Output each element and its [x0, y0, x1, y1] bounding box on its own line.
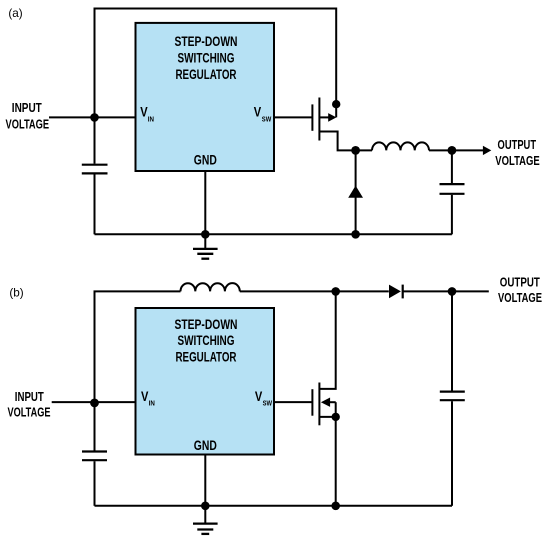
node Q2 source on bottom rail (b) [331, 502, 340, 511]
svg-text:SW: SW [263, 398, 272, 407]
capacitor C2 output cap (a) [440, 150, 465, 234]
svg-text:IN: IN [149, 398, 155, 407]
node Q2 drain junction on rail (b) [331, 287, 340, 296]
pin label VIN (a) [140, 105, 154, 124]
svg-text:SW: SW [262, 114, 271, 123]
svg-text:V: V [254, 105, 261, 120]
node GND junction (a) [201, 230, 210, 239]
regulator U1 box (a) [136, 23, 275, 171]
svg-text:(a): (a) [8, 6, 22, 20]
node Q2 source junction (b) [332, 413, 340, 421]
label INPUT VOLTAGE (b) [8, 389, 51, 420]
svg-text:GND: GND [194, 152, 217, 167]
wire bottom rail (b) [95, 505, 453, 507]
wire input (a): INPUT VOLTAGE to VIN pin [49, 116, 136, 118]
svg-text:GND: GND [194, 438, 217, 453]
svg-text:STEP-DOWN: STEP-DOWN [175, 317, 238, 332]
svg-text:OUTPUT: OUTPUT [498, 137, 537, 152]
svg-text:(b): (b) [9, 285, 23, 299]
svg-text:SWITCHING: SWITCHING [178, 51, 235, 66]
wire top rail left segment (b): input node up, across to inductor [95, 291, 181, 402]
capacitor C1 input cap (a) [82, 117, 108, 234]
svg-text:V: V [141, 389, 148, 404]
transistor Q1 PMOS (a) [312, 98, 355, 151]
wire input (b) [52, 401, 136, 403]
svg-text:VOLTAGE: VOLTAGE [8, 405, 51, 420]
label OUTPUT VOLTAGE (a) [495, 137, 540, 168]
node diode-anode junction on bottom rail (a) [351, 230, 360, 239]
node GND junction (b) [201, 502, 210, 511]
node input junction (b) [90, 399, 99, 408]
svg-text:INPUT: INPUT [12, 100, 42, 115]
pin label VSW (a) [254, 105, 271, 124]
wire bottom rail (a) [95, 233, 452, 235]
wire GND pin stem (a) [204, 171, 206, 234]
node switch node SW (a) [351, 146, 360, 155]
diode D1 freewheel (a) [348, 150, 363, 234]
regulator U2 box (b) [136, 308, 275, 455]
wire top rail mid segment (b): inductor to diode [240, 290, 389, 292]
wire GND pin stem (b) [204, 455, 206, 506]
node input junction (a) [90, 113, 99, 122]
node output junction (a) [448, 146, 457, 155]
svg-text:IN: IN [148, 114, 154, 123]
svg-text:VOLTAGE: VOLTAGE [498, 290, 542, 305]
label INPUT VOLTAGE (a) [6, 100, 50, 131]
wire top rail (a): input node up, across, down to Q1 drain [95, 9, 337, 118]
capacitor C3 input cap (b) [82, 402, 107, 506]
svg-text:V: V [255, 389, 262, 404]
transistor Q2 NMOS (b) [312, 291, 335, 425]
svg-text:REGULATOR: REGULATOR [176, 67, 237, 82]
svg-text:V: V [140, 105, 147, 120]
label (a) [8, 6, 22, 20]
svg-text:SWITCHING: SWITCHING [178, 333, 235, 348]
wire top rail right segment (b): diode to output [403, 290, 489, 292]
wire VSW to gate (b) [274, 401, 312, 403]
svg-text:OUTPUT: OUTPUT [500, 274, 540, 289]
svg-text:INPUT: INPUT [15, 389, 44, 404]
wire Q2 source to bottom rail (b) [335, 417, 337, 506]
svg-text:STEP-DOWN: STEP-DOWN [175, 34, 238, 49]
pin label VIN (b) [141, 389, 155, 407]
wire VSW to gate (a) [274, 116, 312, 118]
node Q1 drain dot (a) [332, 100, 340, 108]
node output junction (b) [448, 287, 457, 296]
pin label GND (b) [194, 438, 217, 453]
inductor L2 (b) [181, 283, 240, 291]
pin label VSW (b) [255, 389, 272, 407]
pin label GND (a) [194, 152, 217, 167]
inductor L1 (a) [356, 142, 452, 150]
wire output with arrow (a) [452, 146, 491, 155]
diode D2 boost (b) [389, 285, 403, 299]
svg-text:VOLTAGE: VOLTAGE [495, 153, 540, 168]
svg-text:REGULATOR: REGULATOR [176, 350, 237, 365]
svg-text:VOLTAGE: VOLTAGE [6, 116, 50, 131]
label OUTPUT VOLTAGE (b) [498, 274, 542, 304]
ground symbol (a) [193, 234, 218, 258]
capacitor C4 output cap (b) [440, 291, 465, 505]
label (b) [9, 285, 23, 299]
ground symbol (b) [193, 506, 218, 534]
